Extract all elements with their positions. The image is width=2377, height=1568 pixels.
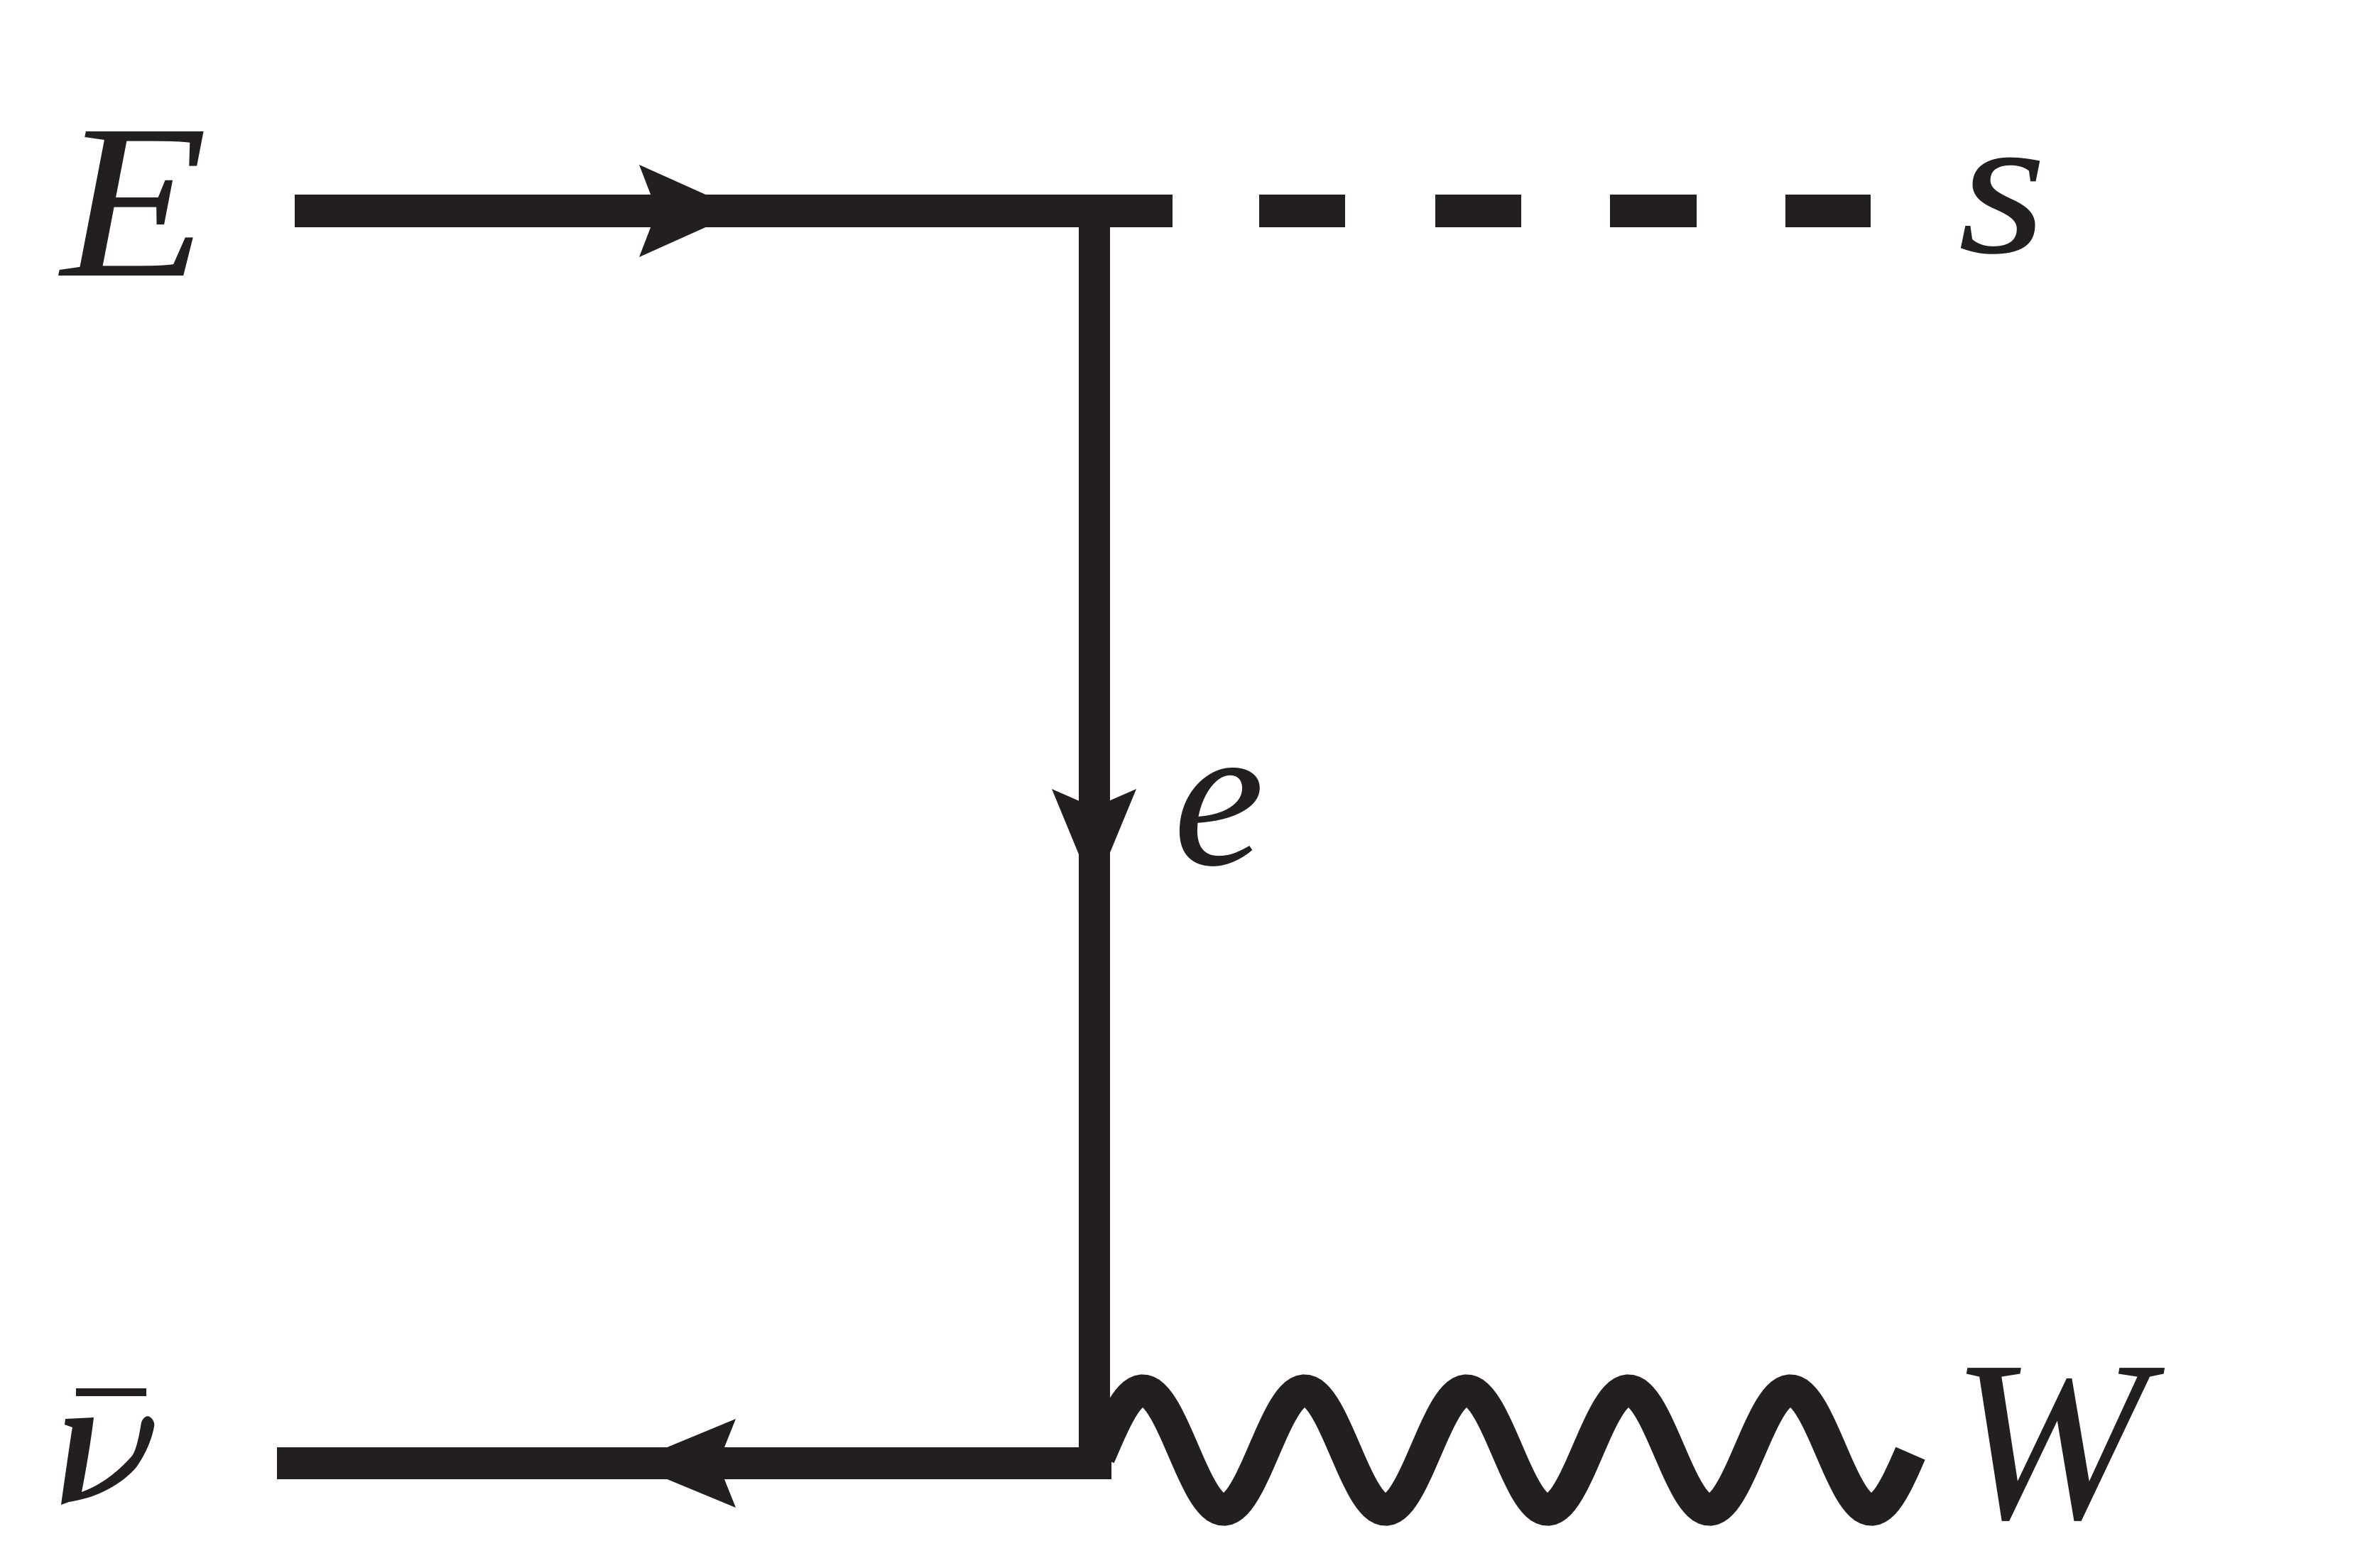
label nu-bar: nu glyph [61,1416,154,1505]
dashed scalar line to s [1259,195,1871,227]
svg-text:W: W [1951,1314,2167,1567]
arrow on E line (points right) [639,165,742,257]
arrow on e propagator (points down) [1052,789,1136,891]
antineutrino fermion line (bottom solid propagator) [277,1447,1111,1479]
W boson wavy line [1099,1390,1910,1510]
vertical fermion propagator e [1079,211,1110,1463]
svg-text:s: s [1958,74,2047,296]
svg-text:e: e [1173,681,1264,909]
svg-text:E: E [58,80,207,324]
arrow on antineutrino line (points left) [629,1419,736,1508]
label nu-bar (incoming antineutrino): overbar [76,1388,146,1396]
fermion line E (top solid propagator) [295,195,1173,227]
